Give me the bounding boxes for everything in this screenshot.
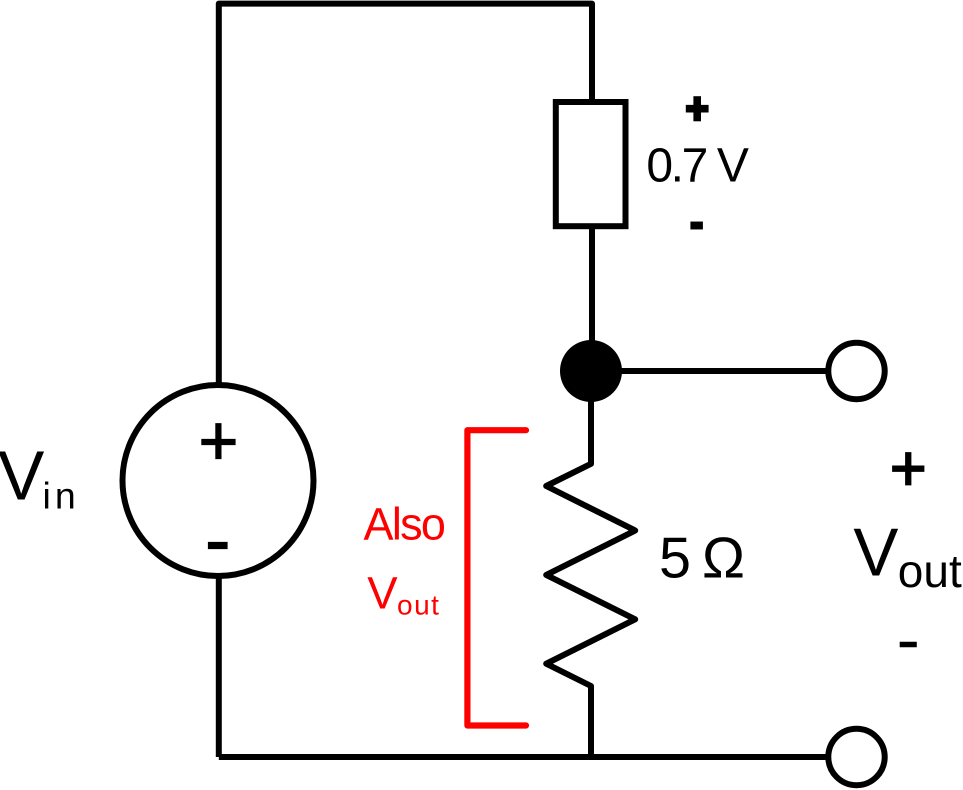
svg-text:out: out xyxy=(397,589,440,620)
plus sign inside source xyxy=(201,439,235,445)
svg-text:0.7 V: 0.7 V xyxy=(646,140,748,193)
diode-drop box 0.7V xyxy=(556,102,626,226)
minus sign Vout xyxy=(900,642,917,648)
svg-text:V: V xyxy=(0,437,45,515)
top output terminal xyxy=(828,343,884,399)
plus sign Vout xyxy=(892,466,924,472)
plus sign near 0.7V box xyxy=(686,105,709,113)
svg-text:V: V xyxy=(853,516,898,591)
wire box to node xyxy=(589,226,595,352)
bottom wire xyxy=(219,754,829,760)
svg-text:out: out xyxy=(898,545,962,597)
svg-text:V: V xyxy=(367,568,398,619)
svg-text:Also: Also xyxy=(364,498,445,549)
svg-text:5 Ω: 5 Ω xyxy=(659,526,743,590)
wire node to top terminal xyxy=(591,368,829,374)
minus sign inside source xyxy=(208,542,228,549)
svg-text:in: in xyxy=(43,475,80,517)
wire Vin bottom to bottom wire xyxy=(216,574,222,757)
voltage source Vin circle xyxy=(123,385,314,576)
red measurement bracket xyxy=(467,430,526,725)
minus sign near 0.7V box xyxy=(690,222,703,230)
bottom output terminal xyxy=(828,729,884,785)
wire node to resistor and resistor 5-ohm zigzag xyxy=(546,390,635,757)
node junction dot xyxy=(560,340,622,402)
wire top loop from Vin top to 0.7V box xyxy=(219,4,592,386)
